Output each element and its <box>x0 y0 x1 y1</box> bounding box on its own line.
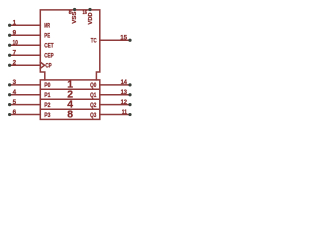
svg-text:Q2: Q2 <box>90 102 97 109</box>
pin 10 CET wire <box>10 44 40 46</box>
svg-text:VSS: VSS <box>72 12 78 24</box>
pin 16 VDD connection dot <box>88 8 91 11</box>
pin 4 P1 wire <box>10 94 40 96</box>
pin 5 connection dot <box>8 103 11 106</box>
svg-text:2: 2 <box>13 59 17 66</box>
svg-text:11: 11 <box>122 109 128 116</box>
pin 1 connection dot <box>8 24 11 27</box>
pin 14 connection dot <box>128 83 131 86</box>
pin 7 connection dot <box>8 54 11 57</box>
pin 2 connection dot <box>8 64 11 67</box>
svg-text:Q0: Q0 <box>90 82 97 89</box>
pin 15 connection dot <box>128 39 131 42</box>
svg-text:9: 9 <box>13 29 17 36</box>
pin 8 VSS connection dot <box>73 8 76 11</box>
svg-text:PE: PE <box>44 33 50 40</box>
ic U1 counter top section outline <box>40 10 100 80</box>
svg-text:P1: P1 <box>44 92 51 99</box>
pin 2 CP wire <box>10 64 40 66</box>
register row divider 1 <box>40 88 100 90</box>
svg-text:P0: P0 <box>44 82 51 89</box>
pin 12 connection dot <box>128 103 131 106</box>
pin 11 Q3 wire <box>100 114 129 116</box>
pin 3 P0 wire <box>10 84 40 86</box>
svg-text:12: 12 <box>121 99 128 106</box>
pin 5 P2 wire <box>10 104 40 106</box>
svg-text:5: 5 <box>13 99 17 106</box>
pin 12 Q2 wire <box>100 104 129 106</box>
svg-text:6: 6 <box>13 109 17 116</box>
pin 6 connection dot <box>8 113 11 116</box>
svg-text:14: 14 <box>121 79 128 86</box>
ic U1 register section outline <box>40 80 100 120</box>
pin 11 connection dot <box>128 113 131 116</box>
svg-text:P2: P2 <box>44 102 51 109</box>
pin 15 TC wire <box>100 39 129 41</box>
pin 3 connection dot <box>8 83 11 86</box>
pin 9 PE wire <box>10 34 40 36</box>
svg-text:15: 15 <box>120 35 127 42</box>
register row divider 2 <box>40 98 100 100</box>
svg-text:TC: TC <box>91 38 97 45</box>
pin 13 Q1 wire <box>100 94 129 96</box>
svg-text:3: 3 <box>13 79 17 86</box>
pin 9 connection dot <box>8 34 11 37</box>
svg-text:VDD: VDD <box>88 12 94 24</box>
svg-text:4: 4 <box>13 89 17 96</box>
svg-text:7: 7 <box>13 49 17 56</box>
svg-text:Q3: Q3 <box>90 112 97 119</box>
pin 4 connection dot <box>8 93 11 96</box>
svg-text:8: 8 <box>67 109 73 120</box>
svg-text:CP: CP <box>45 63 51 70</box>
svg-text:16: 16 <box>83 10 88 16</box>
svg-text:CET: CET <box>44 43 53 50</box>
clock symbol on CP <box>40 62 44 68</box>
pin 10 connection dot <box>8 44 11 47</box>
svg-text:P3: P3 <box>44 112 51 119</box>
pin 13 connection dot <box>128 93 131 96</box>
pin 7 CEP wire <box>10 54 40 56</box>
pin 6 P3 wire <box>10 114 40 116</box>
register row divider 3 <box>40 108 100 110</box>
svg-text:13: 13 <box>121 89 128 96</box>
pin 14 Q0 wire <box>100 84 129 86</box>
svg-text:MR: MR <box>44 23 50 30</box>
pin 1 MR wire <box>10 24 40 26</box>
svg-text:Q1: Q1 <box>90 92 97 99</box>
svg-text:1: 1 <box>13 19 17 26</box>
svg-text:CEP: CEP <box>44 53 53 60</box>
svg-text:10: 10 <box>13 39 19 46</box>
